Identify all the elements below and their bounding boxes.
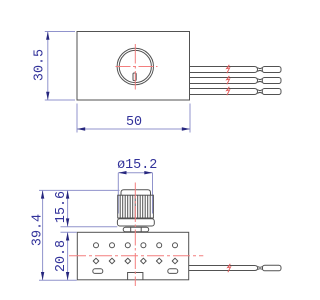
front view: red horizontal centerline [69,255,203,257]
front view: top row hole 6 [173,243,178,248]
front view: shaft collar divisions [131,227,142,232]
front view: red vertical centerline [134,183,136,287]
svg-text:15.6: 15.6 [54,191,69,223]
top view: red horizontal centerline [116,66,158,68]
lead 3 neck [258,90,263,94]
svg-text:30.5: 30.5 [33,49,48,81]
lead 1 bar [190,67,258,73]
front view: middle row rivet 1 [93,258,99,264]
front view: knob skirt [117,219,154,226]
lead 1 break mark [227,65,230,73]
dimension 15.6 extension line bottom [61,226,118,228]
front view: top row hole 2 [110,243,115,248]
front view: middle row rivet 3 [125,258,131,264]
lead 2 neck [258,79,263,83]
top view: red vertical centerline [134,44,136,90]
dimension 30.5 arrows [46,32,49,40]
dimension 20.8 line [67,232,69,280]
lead 1 neck [258,68,263,72]
front view: top row hole 1 [94,243,99,248]
dimension 30.5 extension lines [45,32,75,101]
dimension 39.4 line [42,190,44,280]
front view: bottom locating notch [128,273,143,280]
front view: middle row rivet 2 [109,258,115,264]
lead 3 bar [190,89,258,95]
top view: potentiometer body outline [77,32,190,101]
dimension 39.4 extension line top [39,189,120,191]
dimension 50 arrows [77,127,85,130]
front view: bottom slot right [168,269,178,274]
lead 2 break mark [227,76,230,84]
front view: bottom slot left [93,269,103,274]
dimension 50 line [77,128,190,130]
top view: knob inner circle [119,50,151,82]
dimension 20.8 extension line top [61,231,77,233]
lead 3 terminal [262,89,281,95]
dimension 39.4 extension line bottom [39,279,77,281]
front view lead break mark [228,264,231,272]
front view: knob knurl ribs [120,195,150,218]
front view: body outline [77,232,188,279]
front view: shaft collar [123,227,149,232]
front view: middle row rivet 5 [156,258,162,264]
lead 2 bar [190,78,258,84]
dimension dia 15.2 extension lines [118,173,152,214]
lead 1 terminal [262,67,281,73]
top view: knob outer circle [117,48,153,84]
dimension 39.4 arrows [41,190,44,198]
dimension 15.6 line [67,190,69,226]
svg-text:20.8: 20.8 [54,240,69,272]
svg-text:50: 50 [126,115,142,130]
front view lead neck [258,267,263,270]
dimension 50 extension lines [77,104,190,133]
dimension 15.6 arrows [66,190,69,198]
front view: top row hole 5 [157,243,162,248]
svg-text:ø15.2: ø15.2 [117,158,157,173]
front view: middle row rivet 4 [141,258,147,264]
front view: top row hole 4 [141,243,146,248]
svg-text:39.4: 39.4 [31,214,46,246]
top view: knob index mark [133,73,136,81]
dimension 20.8 arrows [66,232,69,240]
dimension 30.5 line [47,32,49,101]
front view lead terminal [263,265,282,271]
front view: knob cap [121,190,151,195]
lead 3 break mark [227,87,230,95]
lead 2 terminal [262,78,281,84]
dimension dia 15.2 line [118,172,152,174]
front view: knob knurled section [118,195,154,218]
front view: middle row rivet 6 [172,258,178,264]
dimension dia 15.2 arrows [118,171,126,174]
front view lead bar [189,266,258,271]
front view: top row hole 3 [125,243,130,248]
